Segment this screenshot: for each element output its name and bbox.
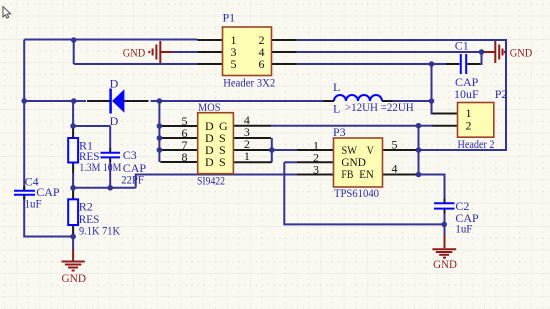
svg-text:1: 1 <box>244 149 250 163</box>
svg-text:2: 2 <box>466 119 472 133</box>
svg-text:1uF: 1uF <box>25 197 42 211</box>
svg-text:D: D <box>110 114 119 128</box>
svg-text:L: L <box>333 101 340 115</box>
svg-text:22PF: 22PF <box>121 173 144 187</box>
svg-text:Header 2: Header 2 <box>458 137 495 151</box>
svg-text:L: L <box>333 80 340 94</box>
svg-text:P3: P3 <box>333 125 346 139</box>
svg-text:FB: FB <box>341 167 353 181</box>
svg-text:1uF: 1uF <box>455 221 472 235</box>
svg-text:GND: GND <box>62 271 87 285</box>
svg-text:5: 5 <box>392 138 398 152</box>
svg-text:SI9422: SI9422 <box>197 174 225 188</box>
svg-text:TPS61040: TPS61040 <box>334 186 379 200</box>
svg-text:Header 3X2: Header 3X2 <box>223 75 275 89</box>
svg-text:C1: C1 <box>455 39 469 53</box>
svg-text:D: D <box>110 76 119 90</box>
svg-text:8: 8 <box>182 150 188 164</box>
svg-text:P2: P2 <box>495 87 508 101</box>
svg-text:10uF: 10uF <box>454 87 479 101</box>
svg-text:EN: EN <box>359 167 374 181</box>
svg-text:V: V <box>367 143 374 157</box>
svg-text:9.1K 71K: 9.1K 71K <box>79 224 120 238</box>
svg-text:6: 6 <box>259 57 265 71</box>
svg-text:S: S <box>219 155 226 169</box>
svg-text:MOS: MOS <box>198 100 221 114</box>
svg-text:D: D <box>205 155 214 169</box>
svg-text:>12UH =22UH: >12UH =22UH <box>345 100 414 114</box>
svg-text:GND: GND <box>510 46 533 60</box>
svg-text:3: 3 <box>313 163 319 177</box>
svg-text:4: 4 <box>392 162 398 176</box>
svg-text:5: 5 <box>231 57 237 71</box>
svg-text:P1: P1 <box>223 11 236 25</box>
svg-text:GND: GND <box>123 45 146 59</box>
svg-text:1.3M 10M: 1.3M 10M <box>79 160 121 174</box>
svg-text:GND: GND <box>433 257 457 271</box>
